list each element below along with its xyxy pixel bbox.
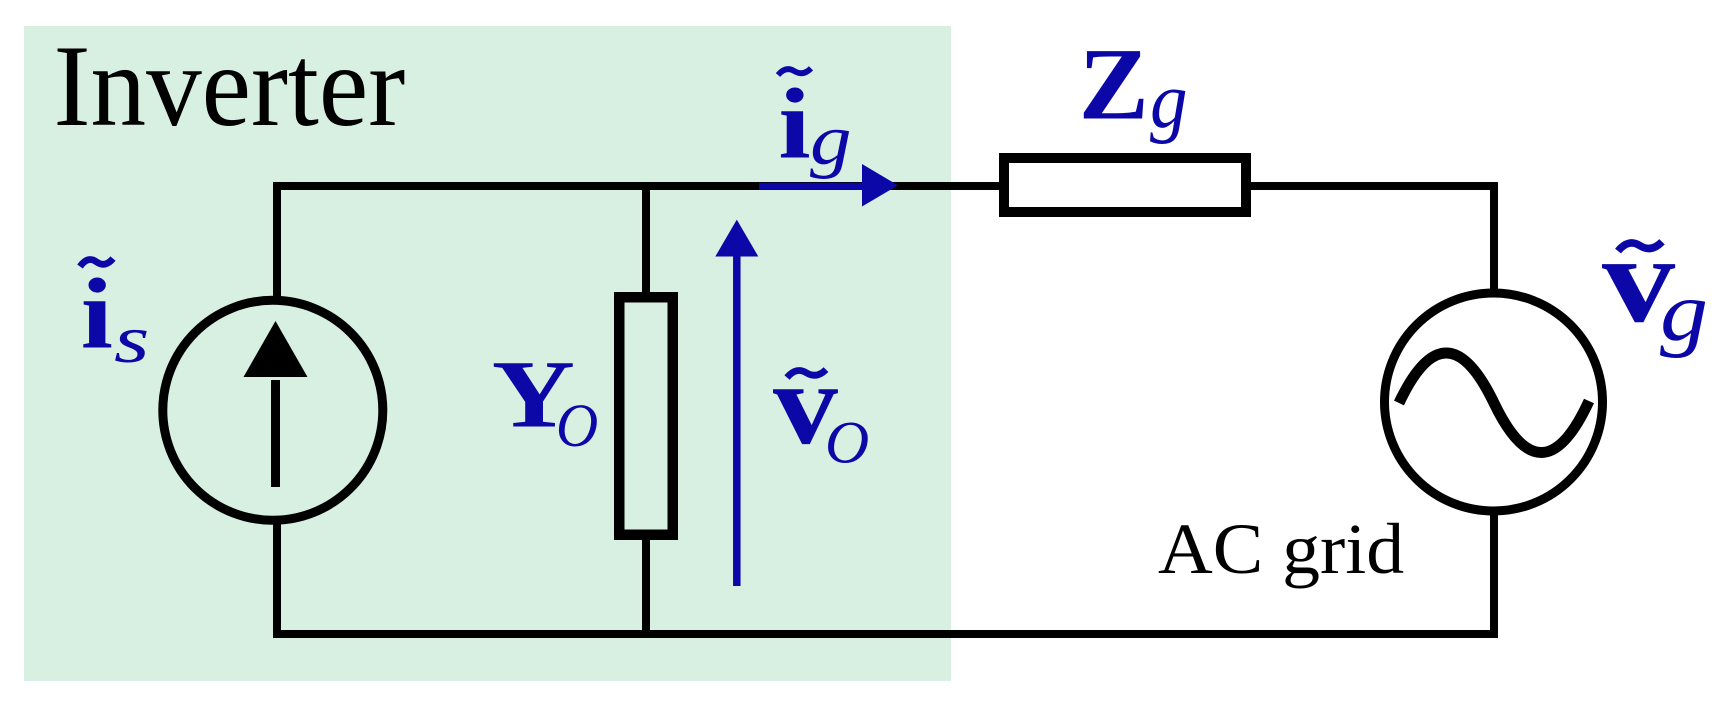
wire right vertical below AC source [1490,508,1498,638]
current source arrowhead [244,321,308,377]
svg-text:Z: Z [1079,26,1149,141]
wire top horizontal [277,182,1494,190]
label v_g with tilde [1602,211,1708,358]
wire riser above current source [273,182,281,300]
wire bottom horizontal [273,630,1498,638]
svg-text:Inverter: Inverter [54,20,406,150]
label v_o with tilde [773,339,869,476]
wire riser below current source [273,518,281,634]
svg-text:s: s [114,302,149,377]
svg-text:i: i [778,68,810,180]
inverter shaded region [24,26,951,681]
current source circle [163,300,383,520]
arrow i_g (blue, rightward on top wire) [759,164,898,207]
wire Y0 branch bottom [642,535,650,638]
svg-text:g: g [810,100,852,179]
svg-text:O: O [556,392,598,460]
arrow v_o (blue, upward) [715,220,758,586]
wire right vertical above AC source [1490,182,1498,295]
AC source sine wave [1399,353,1589,453]
label i_s with tilde [80,258,149,377]
AC source circle [1385,293,1603,511]
admittance Y0 rectangle [619,297,673,535]
svg-text:g: g [1150,56,1188,144]
svg-text:AC grid: AC grid [1158,509,1404,589]
label Y0 [492,341,598,459]
label i_g with tilde [778,68,852,180]
impedance Zg rectangle [1004,158,1246,212]
wire Y0 branch top [642,182,650,297]
svg-text:O: O [825,410,869,476]
label Zg [1079,26,1188,144]
svg-text:g: g [1660,264,1708,359]
svg-text:i: i [81,258,113,369]
current source arrow shaft [271,380,280,487]
